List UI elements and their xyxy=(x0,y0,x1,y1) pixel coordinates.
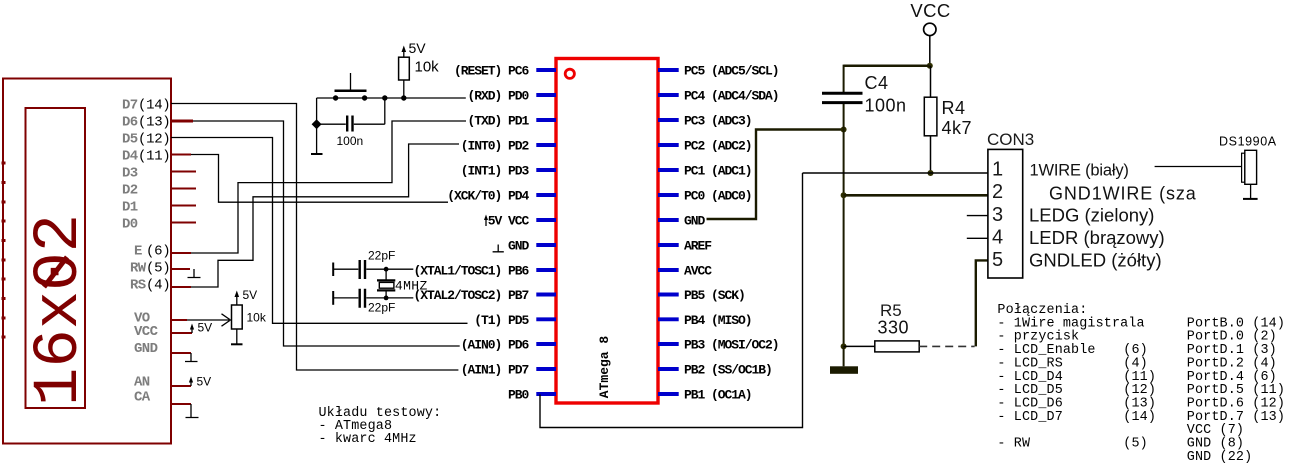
wire PB0 to CON3 pin1 (loop under IC) xyxy=(540,173,803,428)
svg-text:- LCD_D7: - LCD_D7 xyxy=(997,410,1063,425)
LCD pin stub AN xyxy=(171,385,191,387)
resistor R4 4k7 xyxy=(930,66,932,173)
C4/GND rail down to pin2 node and R5 node xyxy=(843,104,845,346)
svg-text:4k7: 4k7 xyxy=(942,118,973,138)
svg-text:E: E xyxy=(134,244,142,260)
svg-text:DS1990A: DS1990A xyxy=(1219,135,1277,149)
svg-text:PC4 (ADC4/SDA): PC4 (ADC4/SDA) xyxy=(684,89,779,104)
push button S1 xyxy=(335,90,367,93)
wire LCD D5 to PD5 (T1) xyxy=(171,138,468,324)
svg-text:AREF: AREF xyxy=(684,239,712,254)
svg-text:10k: 10k xyxy=(247,311,267,325)
dashed wire R5 to pin5 riser xyxy=(919,345,974,347)
ground symbol at LCD CA xyxy=(186,404,199,418)
svg-text:PC3 (ADC3): PC3 (ADC3) xyxy=(684,114,752,129)
svg-text:PB1 (OC1A): PB1 (OC1A) xyxy=(684,388,752,403)
LCD pin stub VCC xyxy=(171,332,192,334)
wire CON3 pin2 line (thick) xyxy=(844,194,988,197)
svg-text:3: 3 xyxy=(992,204,1003,226)
5V arrow at LCD VCC xyxy=(191,328,193,333)
ground symbol at LCD GND xyxy=(185,353,198,362)
junction dot at CON3 pin2 line xyxy=(841,192,847,198)
svg-text:- kwarc 4MHz: - kwarc 4MHz xyxy=(319,432,417,447)
svg-text:D6: D6 xyxy=(122,115,138,131)
slash of zero in 16x02 xyxy=(44,257,67,287)
5V arrow at LCD AN xyxy=(190,381,192,386)
svg-text:D2: D2 xyxy=(122,183,138,199)
svg-text:PB3 (MOSI/OC2): PB3 (MOSI/OC2) xyxy=(684,338,779,353)
svg-text:5V: 5V xyxy=(243,288,258,302)
LCD pin stub D1 xyxy=(171,205,196,207)
wire button node row to PD0 (RXD) xyxy=(317,97,466,99)
5V supply arrow at reset pull-up xyxy=(403,50,405,57)
pin label 5V VCC with arrow xyxy=(485,218,487,226)
LCD pin stub D2 xyxy=(171,188,196,190)
svg-text:2: 2 xyxy=(992,181,1003,203)
svg-text:PB5 (SCK): PB5 (SCK) xyxy=(684,288,745,303)
svg-text:(INT0) PD2: (INT0) PD2 xyxy=(461,139,530,154)
svg-text:22pF: 22pF xyxy=(368,249,395,263)
svg-text:5V VCC: 5V VCC xyxy=(488,214,530,229)
CON3 pin4 stub xyxy=(967,237,988,239)
svg-text:(TXD) PD1: (TXD) PD1 xyxy=(468,114,530,129)
wire 10k to button node xyxy=(403,80,405,98)
LCD pin stub D6 xyxy=(171,120,193,123)
LCD pin stub RS xyxy=(171,286,191,288)
capacitor 100n (debounce) xyxy=(347,116,352,132)
svg-text:(14): (14) xyxy=(138,98,170,114)
svg-text:PB0: PB0 xyxy=(508,388,530,403)
junction dot R4 bottom on pin1 wire xyxy=(928,170,934,176)
svg-text:(AIN0) PD6: (AIN0) PD6 xyxy=(461,338,530,353)
wire IC GND pin to C4 rail (thick) xyxy=(707,130,844,220)
junction dot VCC node xyxy=(927,63,933,69)
svg-text:AVCC: AVCC xyxy=(684,264,712,279)
LCD pin stub D4 xyxy=(171,154,191,156)
pin label GND with ground glyph xyxy=(493,245,504,252)
crystal 4MHZ xyxy=(385,269,387,280)
CON3 pin3 stub xyxy=(967,215,988,217)
svg-text:VCC: VCC xyxy=(910,0,950,21)
IC U1 ATmega8 body xyxy=(556,59,658,404)
svg-text:5: 5 xyxy=(992,249,1003,271)
svg-text:(XTAL1/TOSC1) PB6: (XTAL1/TOSC1) PB6 xyxy=(414,264,530,279)
pin 1 marker circle xyxy=(565,69,574,78)
svg-text:4: 4 xyxy=(992,227,1003,249)
svg-text:PC1 (ADC1): PC1 (ADC1) xyxy=(684,164,752,179)
wire LCD D4 to PD4 (XCK/T0) xyxy=(191,155,448,203)
svg-text:22pF: 22pF xyxy=(368,301,395,315)
svg-text:5V: 5V xyxy=(409,40,427,56)
svg-text:(11): (11) xyxy=(138,149,170,165)
wire VCC circle down to junction xyxy=(929,36,931,66)
ground symbol at LCD RW xyxy=(188,269,201,278)
wire LCD RS to PD2 (INT0) xyxy=(191,144,459,287)
DS1990A ground stem xyxy=(1250,184,1252,198)
svg-text:GND1WIRE (sza: GND1WIRE (sza xyxy=(1049,184,1197,204)
wire riser to CON3 pin5 xyxy=(976,260,988,346)
svg-text:PC0 (ADC0): PC0 (ADC0) xyxy=(684,189,752,204)
LCD pin stub VO xyxy=(171,319,187,321)
svg-text:(XTAL2/TOSC2) PB7: (XTAL2/TOSC2) PB7 xyxy=(414,288,529,303)
svg-text:CON3: CON3 xyxy=(987,130,1034,149)
LCD left edge pin nubs xyxy=(2,162,6,339)
LCD module 16x02 outer body xyxy=(3,79,171,444)
svg-text:D5: D5 xyxy=(122,132,138,148)
svg-text:D1: D1 xyxy=(122,200,138,216)
svg-text:1: 1 xyxy=(992,159,1003,181)
svg-text:100n: 100n xyxy=(337,134,364,148)
LCD display window inner rect xyxy=(26,108,86,408)
LCD pin stub E xyxy=(171,252,191,254)
svg-text:PB4 (MISO): PB4 (MISO) xyxy=(684,313,752,328)
svg-text:10k: 10k xyxy=(415,59,440,76)
svg-text:RW: RW xyxy=(130,261,147,277)
LCD pin stub D3 xyxy=(171,171,196,173)
svg-text:LEDG (zielony): LEDG (zielony) xyxy=(1029,205,1154,226)
svg-text:ATmega 8: ATmega 8 xyxy=(597,336,612,399)
wire LCD D6 to PD6 (AIN0) xyxy=(193,121,460,346)
connector CON3 body xyxy=(988,149,1023,278)
VCC terminal circle xyxy=(924,23,936,35)
junction dot at R5 xyxy=(841,343,847,349)
svg-text:GND: GND xyxy=(508,239,530,254)
22pF capacitor top (XTAL1) xyxy=(332,263,334,277)
svg-text:D7: D7 xyxy=(122,98,138,114)
wire LCD D7 to PD7 (AIN1) xyxy=(171,104,458,371)
svg-text:GNDLED (żółty): GNDLED (żółty) xyxy=(1029,250,1162,271)
svg-text:(12): (12) xyxy=(138,132,170,148)
svg-text:(RESET) PC6: (RESET) PC6 xyxy=(454,64,530,79)
svg-text:RS: RS xyxy=(130,278,146,294)
svg-text:PB2 (SS/OC1B): PB2 (SS/OC1B) xyxy=(684,363,772,378)
svg-text:(RXD) PD0: (RXD) PD0 xyxy=(468,89,530,104)
svg-text:AN: AN xyxy=(134,375,150,391)
ground stem and bar below rail xyxy=(843,346,845,366)
svg-text:CA: CA xyxy=(134,390,151,406)
svg-text:D4: D4 xyxy=(122,149,138,165)
svg-text:(AIN1) PD7: (AIN1) PD7 xyxy=(461,363,529,378)
DS1990A probe body xyxy=(1245,150,1257,184)
wire CON3 pin1 to DS1990A xyxy=(1155,166,1242,168)
svg-text:PC2 (ADC2): PC2 (ADC2) xyxy=(684,139,752,154)
svg-text:(INT1) PD3: (INT1) PD3 xyxy=(461,164,530,179)
svg-text:- RW: - RW xyxy=(997,437,1031,452)
svg-text:VCC: VCC xyxy=(134,324,159,340)
svg-text:LEDR (brązowy): LEDR (brązowy) xyxy=(1029,227,1165,248)
svg-text:5V: 5V xyxy=(198,321,213,335)
potentiometer R 10k (LCD contrast) xyxy=(232,305,243,329)
ground stub below diamond xyxy=(316,124,318,154)
wire LCD VO to potentiometer wiper (arrow) xyxy=(187,314,231,326)
svg-text:16x02: 16x02 xyxy=(24,214,96,406)
svg-text:R4: R4 xyxy=(942,98,966,118)
svg-text:(6): (6) xyxy=(146,244,170,260)
svg-text:330: 330 xyxy=(878,318,910,338)
svg-text:(5): (5) xyxy=(1123,437,1148,452)
IC left pins (blue) xyxy=(536,70,556,394)
svg-text:(5): (5) xyxy=(146,261,170,277)
svg-text:GND: GND xyxy=(684,214,706,229)
wire VCC node to C4 branch (thick) xyxy=(844,65,930,68)
svg-text:PC5 (ADC5/SCL): PC5 (ADC5/SCL) xyxy=(684,64,779,79)
svg-text:100n: 100n xyxy=(865,96,907,116)
svg-text:(XCK/T0) PD4: (XCK/T0) PD4 xyxy=(447,189,529,204)
LCD pin stub CA xyxy=(171,403,191,405)
svg-text:(13): (13) xyxy=(138,115,170,131)
junction at C4 rail / GND wire xyxy=(841,127,847,133)
capacitor C4 plates xyxy=(822,93,863,102)
junction diamond at capacitor left xyxy=(312,119,322,129)
svg-text:C4: C4 xyxy=(865,73,889,93)
IC right pins (blue) xyxy=(658,70,679,394)
resistor 10k pull-up xyxy=(399,57,410,80)
22pF capacitor bottom (XTAL2) xyxy=(332,291,334,305)
wire button left to capacitor node xyxy=(317,98,346,124)
wire CON3 pin1 line xyxy=(803,172,988,174)
svg-text:1WIRE (biały): 1WIRE (biały) xyxy=(1030,162,1129,180)
svg-text:GND: GND xyxy=(134,341,158,357)
svg-text:D0: D0 xyxy=(122,217,138,233)
LCD pin stub RW xyxy=(171,268,190,270)
svg-text:(T1) PD5: (T1) PD5 xyxy=(474,313,529,328)
svg-text:(4): (4) xyxy=(146,278,170,294)
DS1990A probe contact bar xyxy=(1242,153,1245,182)
resistor R5 330 xyxy=(844,345,875,347)
LCD pin stub GND xyxy=(171,352,191,354)
wire LCD E to PD1 (TXD) xyxy=(191,121,466,253)
svg-text:D3: D3 xyxy=(122,166,138,182)
svg-text:GND (22): GND (22) xyxy=(1187,450,1253,463)
LCD pin stub D0 xyxy=(171,222,196,224)
svg-text:(14): (14) xyxy=(1123,410,1156,425)
svg-text:5V: 5V xyxy=(197,375,212,389)
wire down to C4 top plate xyxy=(843,65,845,92)
